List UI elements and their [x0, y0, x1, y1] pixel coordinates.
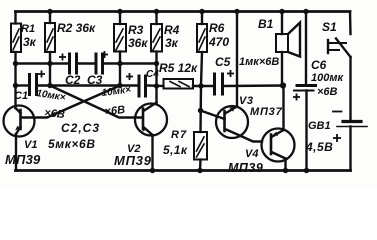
node R4 wire63 [154, 61, 159, 66]
svg-text:V4: V4 [245, 148, 258, 160]
wire crossing diagonal to V2 base [50, 86, 141, 118]
wire left bus below R1 [14, 52, 16, 108]
svg-text:R4: R4 [164, 23, 180, 37]
svg-text:R7: R7 [171, 129, 187, 141]
capacitor C6 [294, 12, 316, 171]
battery GB1 [333, 112, 367, 171]
plus sign C3 [101, 51, 108, 58]
switch S1 [328, 39, 351, 58]
node R2 top [47, 9, 52, 14]
svg-text:×6В: ×6В [317, 86, 338, 98]
node R3 top [117, 9, 122, 14]
wire R3 bottom lead down [119, 52, 121, 86]
svg-text:МП37: МП37 [250, 106, 283, 118]
node R3 y85 [117, 83, 122, 88]
svg-text:×6В: ×6В [104, 104, 126, 118]
capacitor C1 [30, 75, 37, 95]
resistor R5 [164, 79, 194, 89]
resistor R1 [11, 24, 21, 53]
capacitor C4 [139, 76, 146, 96]
wire bias row y63 [16, 62, 69, 64]
capacitor C2 [70, 54, 77, 73]
svg-text:C1: C1 [14, 90, 28, 102]
resistor R2 [45, 12, 55, 53]
svg-text:×6В: ×6В [44, 107, 66, 121]
wire R6/R7 column [199, 86, 202, 132]
node R4 wire86 [154, 83, 159, 88]
capacitor C3 [96, 54, 103, 73]
wire V3 collector to top rail [236, 12, 238, 107]
svg-text:36к: 36к [128, 36, 148, 50]
svg-text:GB1: GB1 [308, 120, 331, 132]
svg-text:МП39: МП39 [228, 161, 263, 175]
wire V4 collector to bottom rail [284, 159, 286, 171]
node R2 y85 [47, 83, 52, 88]
resistor R4 [151, 12, 162, 52]
wire bottom supply rail [16, 169, 351, 172]
svg-text:4,5В: 4,5В [305, 140, 333, 154]
wire signal row y85 [16, 84, 29, 86]
wire switch to battery [349, 57, 351, 121]
wire top-left corner to R1 [14, 12, 16, 24]
svg-text:1мк×6В: 1мк×6В [239, 56, 279, 68]
node R6 top [199, 9, 204, 14]
plus sign C2 [59, 54, 66, 61]
svg-text:100мк: 100мк [311, 72, 344, 84]
transistor V2 [135, 103, 167, 136]
svg-text:C2: C2 [65, 73, 81, 87]
svg-text:10мк×: 10мк× [101, 84, 132, 99]
wire V1 emitter to bottom rail [15, 134, 17, 171]
wire top rail right corner down to switch [349, 12, 352, 35]
plus sign C1 [38, 71, 45, 78]
svg-text:5,1к: 5,1к [163, 143, 188, 157]
svg-text:R3: R3 [128, 23, 144, 37]
svg-text:C3: C3 [87, 73, 103, 87]
svg-text:R5 12к: R5 12к [159, 61, 198, 75]
node R7 rail [197, 168, 202, 173]
node bus y63 [13, 61, 18, 66]
wire V2 emitter to bottom rail [151, 135, 153, 171]
svg-text:S1: S1 [322, 20, 337, 34]
node bus y85 [13, 83, 18, 88]
svg-text:R6: R6 [209, 21, 225, 35]
node R4 top [154, 9, 159, 14]
plus sign C5 [227, 70, 234, 77]
svg-text:МП39: МП39 [5, 152, 41, 167]
svg-text:5мк×6В: 5мк×6В [48, 137, 96, 151]
node V3 collector top [234, 9, 239, 14]
wire R2 bottom lead down to lower wire [49, 52, 51, 86]
resistor R6 [197, 12, 207, 53]
node V2 emitter rail [150, 168, 155, 173]
capacitor C5 [215, 74, 223, 94]
wire R4 bottom lead down to V2 collector [155, 52, 157, 103]
node C6 top [303, 9, 308, 14]
svg-text:R1: R1 [21, 23, 35, 35]
svg-text:C2,C3: C2,C3 [61, 121, 100, 135]
transistor V3 [216, 106, 248, 138]
node V4 rail [283, 168, 288, 173]
wire V3 emitter to V4 base [242, 137, 262, 142]
transistor V4 [262, 129, 295, 162]
wire V4 emitter up to output node [282, 86, 284, 131]
svg-text:B1: B1 [258, 17, 274, 31]
svg-text:3к: 3к [165, 36, 179, 50]
wire crossing diagonal to V1 base [21, 86, 120, 118]
plus sign C4 [126, 73, 133, 80]
svg-text:3к: 3к [23, 35, 37, 49]
node R3 y63 [117, 61, 122, 66]
node V3 base tap [198, 108, 203, 113]
svg-text:470: 470 [208, 35, 229, 49]
wire R6 bottom lead down [201, 52, 202, 86]
svg-text:V1: V1 [24, 139, 37, 151]
svg-text:R2 36к: R2 36к [57, 21, 96, 35]
node B1 top [279, 9, 284, 14]
svg-text:C6: C6 [311, 58, 327, 72]
node output junction [280, 82, 286, 88]
node R5 right [198, 83, 203, 88]
resistor R7 [194, 132, 207, 160]
loudspeaker B1 [276, 12, 300, 86]
node R2 y63 [47, 61, 52, 66]
node C6 rail [304, 168, 309, 173]
plus sign GB1 [333, 134, 341, 142]
transistor V1 [4, 106, 35, 137]
resistor R3 [114, 12, 126, 52]
plus sign C6 [293, 94, 300, 101]
svg-text:C4: C4 [146, 69, 159, 80]
wire top supply rail [16, 10, 351, 13]
svg-text:МП39: МП39 [114, 153, 152, 168]
wire V3 base [201, 111, 225, 120]
svg-text:C5: C5 [215, 55, 231, 69]
